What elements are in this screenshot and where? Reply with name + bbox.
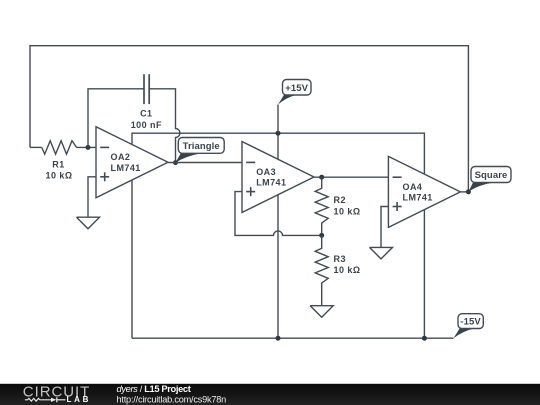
svg-text:LM741: LM741 — [111, 163, 141, 173]
wire OA3 output to OA4 inverting input — [314, 176, 388, 178]
svg-text:OA3: OA3 — [256, 167, 276, 177]
OA4 plus symbol — [393, 202, 402, 211]
node OA3 output / R2 — [319, 175, 324, 180]
wire OA4 V- pin — [423, 210, 425, 339]
svg-text:+15V: +15V — [285, 83, 308, 94]
wire OA3 V+ pin — [277, 133, 279, 159]
wire OA4 output to Square node — [460, 191, 468, 193]
OA2 plus symbol — [100, 172, 109, 181]
OA2 minus symbol — [100, 146, 109, 148]
node at R1 / C1 / OA2 minus — [86, 145, 91, 150]
svg-text:R1: R1 — [52, 160, 64, 170]
wire R1 left lead — [30, 146, 42, 148]
label R3 value — [334, 254, 361, 275]
wire C1 left branch — [88, 89, 144, 148]
svg-text:10 kΩ: 10 kΩ — [334, 206, 361, 216]
node OA3 V- on -15V rail — [276, 336, 281, 341]
svg-text:LAB: LAB — [67, 395, 92, 404]
svg-text:C1: C1 — [140, 109, 152, 119]
footer bar — [0, 384, 540, 405]
flag -15V — [454, 314, 484, 339]
label OA3 — [256, 167, 286, 188]
flag Triangle — [176, 138, 225, 163]
node Triangle (OA2 output) — [173, 160, 178, 165]
wire feedback top loop — [30, 46, 468, 192]
footer project title — [117, 384, 191, 394]
label flag Square text — [475, 170, 508, 181]
wire R1 to OA2 inverting input — [77, 146, 97, 148]
capacitor C1 — [144, 74, 149, 104]
node Square — [466, 189, 471, 194]
svg-text:R2: R2 — [334, 195, 346, 205]
label flag Triangle text — [183, 141, 220, 152]
OA4 minus symbol — [393, 176, 402, 178]
wire OA4 plus to ground — [381, 207, 388, 248]
label flag +15V text — [285, 83, 308, 94]
svg-text:Square: Square — [475, 170, 508, 181]
label OA2 — [111, 152, 141, 173]
node OA4 V- on -15V rail — [422, 336, 427, 341]
op-amp OA2 — [96, 127, 168, 198]
resistor R3 — [315, 235, 328, 305]
op-amp OA3 — [242, 142, 314, 213]
wire OA2 output to OA3 inverting input — [168, 162, 242, 164]
svg-text:OA2: OA2 — [111, 152, 131, 162]
svg-text:R3: R3 — [334, 254, 346, 264]
OA3 plus symbol — [246, 187, 255, 196]
wire OA3 plus feedback with hop over OA3 V- pin — [235, 192, 322, 236]
wire OA2 plus to ground — [88, 177, 96, 217]
wire C1 right branch with hop over +15V rail — [149, 89, 180, 163]
ground at R3 — [310, 306, 333, 318]
svg-text:100 nF: 100 nF — [131, 120, 162, 130]
OA3 minus symbol — [246, 161, 255, 163]
wire OA3 V- pin — [277, 195, 279, 338]
ground at OA4 plus — [370, 247, 393, 259]
resistor R2 — [315, 177, 328, 235]
label OA4 — [403, 182, 433, 203]
svg-text:LM741: LM741 — [403, 193, 433, 203]
ground at OA2 plus — [77, 217, 100, 229]
flag Square — [468, 167, 511, 192]
svg-text:-15V: -15V — [460, 317, 481, 328]
label C1 value — [131, 109, 162, 130]
node R2 / R3 / OA3 plus — [319, 233, 324, 238]
svg-text:dyers / L15 Project: dyers / L15 Project — [117, 384, 191, 394]
svg-text:http://circuitlab.com/cs9k78n: http://circuitlab.com/cs9k78n — [117, 394, 227, 404]
label R2 value — [334, 195, 361, 216]
label R1 value — [46, 160, 73, 181]
wire +15V rail — [132, 133, 424, 174]
wire OA2 V+ pin — [131, 133, 133, 145]
svg-text:10 kΩ: 10 kΩ — [46, 171, 73, 181]
svg-text:LM741: LM741 — [256, 178, 286, 188]
node +15V at OA3 V+ — [276, 131, 281, 136]
label flag -15V text — [460, 317, 481, 328]
wire OA2 V- pin to -15V rail — [131, 180, 133, 338]
flag +15V — [278, 80, 311, 105]
wire -15V rail — [132, 337, 454, 339]
svg-text:Triangle: Triangle — [183, 141, 220, 152]
wire +15V flag lead — [277, 105, 279, 133]
footer url — [117, 394, 227, 404]
footer CircuitLab logo — [23, 383, 91, 403]
svg-text:OA4: OA4 — [403, 182, 423, 192]
svg-text:10 kΩ: 10 kΩ — [334, 265, 361, 275]
op-amp OA4 — [388, 156, 460, 227]
resistor R1 — [42, 141, 77, 154]
